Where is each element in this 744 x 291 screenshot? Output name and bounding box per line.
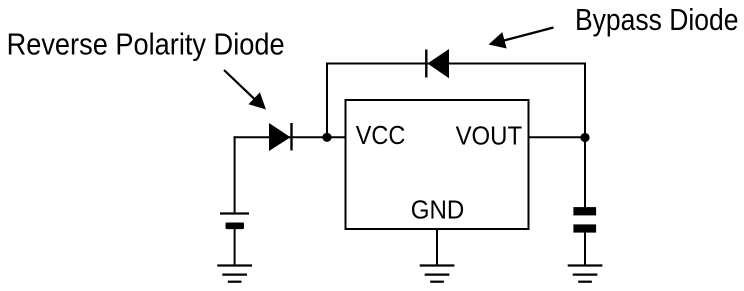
svg-text:GND: GND [411,195,465,225]
svg-text:Reverse Polarity Diode: Reverse Polarity Diode [7,28,285,62]
svg-text:VCC: VCC [356,120,406,150]
svg-text:VOUT: VOUT [456,120,522,150]
svg-text:Bypass Diode: Bypass Diode [575,3,739,37]
